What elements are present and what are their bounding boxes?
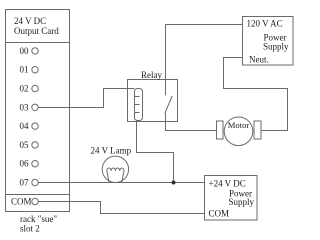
- svg-text:01: 01: [20, 65, 29, 75]
- svg-text:00: 00: [20, 46, 30, 56]
- svg-text:06: 06: [20, 159, 30, 169]
- svg-text:slot 2: slot 2: [20, 224, 40, 234]
- svg-text:rack "sue": rack "sue": [20, 214, 57, 224]
- svg-text:+24 V DC: +24 V DC: [209, 179, 246, 189]
- svg-text:Supply: Supply: [229, 197, 255, 207]
- svg-text:02: 02: [20, 84, 29, 94]
- svg-text:Output Card: Output Card: [14, 26, 59, 36]
- svg-text:COM: COM: [11, 197, 32, 207]
- svg-text:120 V AC: 120 V AC: [247, 19, 283, 29]
- svg-text:24 V DC: 24 V DC: [14, 16, 46, 26]
- svg-text:Supply: Supply: [263, 42, 289, 52]
- svg-text:Neut.: Neut.: [249, 55, 269, 65]
- svg-text:Motor: Motor: [228, 120, 250, 130]
- svg-text:07: 07: [20, 178, 30, 188]
- svg-text:05: 05: [20, 140, 30, 150]
- svg-text:COM: COM: [209, 209, 230, 219]
- svg-text:04: 04: [20, 121, 30, 131]
- svg-text:Relay: Relay: [141, 70, 162, 80]
- svg-text:03: 03: [20, 102, 30, 112]
- svg-text:24 V Lamp: 24 V Lamp: [91, 146, 132, 156]
